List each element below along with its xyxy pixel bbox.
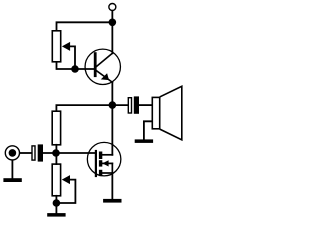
- transistor Q2 body to source link: [111, 163, 113, 173]
- potentiometer P2 wiper arrow: [62, 175, 70, 184]
- wire source to ground: [111, 173, 113, 199]
- transistor Q1 emitter diagonal: [97, 71, 113, 83]
- node J5 (pot bottom junction dot): [53, 199, 61, 207]
- wire J3 down to drain: [111, 105, 113, 155]
- wire C2 to speaker: [139, 104, 152, 106]
- wire emitter down to node J3: [111, 82, 113, 105]
- wire jack to C1: [20, 152, 32, 154]
- capacitor C1 positive plate: [32, 146, 35, 160]
- ground GND4 (speaker): [135, 139, 153, 143]
- potentiometer P2 body: [52, 164, 60, 196]
- transistor Q2 body arrow: [102, 160, 108, 166]
- node J1 (junction dot at top rail): [109, 19, 117, 27]
- transistor Q2 body line with arrow: [102, 162, 112, 164]
- transistor Q2 source stub: [102, 172, 112, 174]
- transistor Q2 MOSFET circle: [87, 142, 121, 176]
- wire J3 to resistor R1 top: [56, 105, 112, 111]
- wire speaker to ground: [144, 121, 152, 139]
- potentiometer P1 wiper arrow: [62, 42, 70, 51]
- transistor Q2 channel segment middle: [99, 160, 102, 166]
- transistor Q2 gate bar: [95, 151, 97, 176]
- capacitor C1 negative plate: [38, 144, 43, 161]
- speaker LS1 body: [152, 97, 159, 128]
- wire J3 to C2: [112, 104, 128, 106]
- wire P1 bottom to base (node B): [57, 62, 95, 69]
- wire jack to ground: [11, 160, 13, 178]
- transistor Q1 collector diagonal: [97, 53, 113, 66]
- wire collector up to J1: [111, 22, 113, 53]
- wire terminal to node J1: [111, 11, 113, 22]
- capacitor C2 negative plate: [134, 96, 139, 113]
- transistor Q1 base bar: [94, 54, 97, 76]
- wire P2 wiper to node J5: [56, 180, 75, 203]
- resistor R1 body: [52, 111, 60, 145]
- transistor Q2 channel segment top: [99, 152, 102, 160]
- transistor Q1 circle: [85, 49, 120, 84]
- terminal X2 inner pin: [9, 149, 17, 157]
- ground GND1 (input): [3, 178, 21, 182]
- transistor Q1 emitter arrow: [101, 73, 109, 80]
- wire P1 wiper to node J2: [69, 46, 76, 69]
- wire top rail: [57, 22, 113, 30]
- wire R1 bottom to node J4: [55, 145, 57, 153]
- ground GND3 (source): [103, 199, 121, 203]
- transistor Q2 channel segment bottom: [99, 170, 102, 176]
- wire J5 to ground: [55, 203, 57, 213]
- node J3 (emitter/output junction dot): [109, 101, 117, 109]
- node J4 (gate junction dot): [52, 149, 60, 157]
- wire C1 to node J4 and MOSFET gate: [43, 152, 96, 154]
- transistor Q2 drain stub: [102, 154, 112, 156]
- ground GND2 (P2): [47, 213, 65, 217]
- node J2 (wiper junction dot): [71, 65, 79, 73]
- wire J4 to P2 top: [55, 153, 57, 164]
- potentiometer P1 body: [52, 31, 60, 62]
- speaker LS1 cone: [161, 86, 182, 140]
- wire P2 bottom to node J5: [55, 196, 57, 203]
- capacitor C2 positive plate: [128, 98, 131, 113]
- terminal X1 (supply, open circle top): [109, 4, 116, 11]
- terminal X2 (input jack outer circle): [5, 146, 19, 160]
